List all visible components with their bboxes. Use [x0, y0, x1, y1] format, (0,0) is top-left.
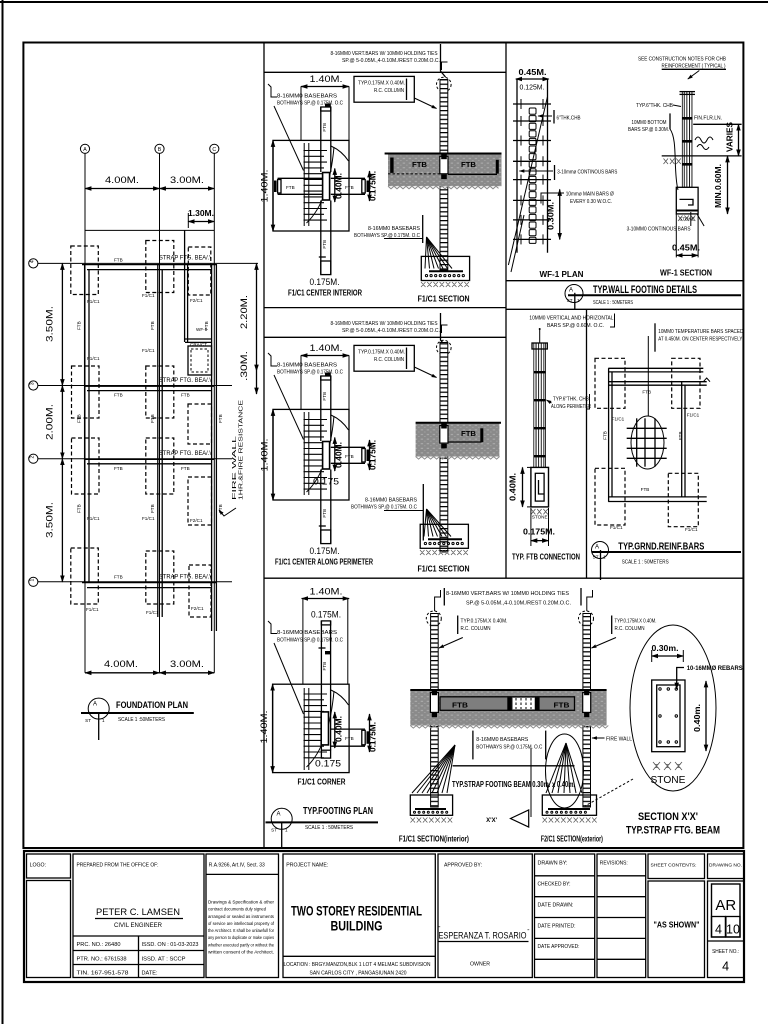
divider horizontal y580 full — [264, 577, 743, 579]
svg-text:10MM0 TEMPERATURE BARS SPACED: 10MM0 TEMPERATURE BARS SPACED — [658, 329, 743, 335]
WF-1 wall horizontal — [185, 338, 212, 340]
svg-text:FTB: FTB — [114, 575, 123, 580]
svg-text:F1/C1: F1/C1 — [146, 610, 159, 615]
svg-text:4.00M.: 4.00M. — [105, 175, 139, 186]
svg-text:FTB: FTB — [218, 414, 223, 423]
svg-text:10mmø MAIN BARS Ø: 10mmø MAIN BARS Ø — [566, 192, 614, 198]
TYP.WALL FOOTING DETAILS title strip — [565, 284, 741, 309]
svg-text:FTB: FTB — [461, 431, 476, 438]
svg-text:A: A — [276, 812, 280, 818]
beam grid3 — [85, 385, 214, 387]
svg-text:STONE: STONE — [679, 217, 695, 222]
svg-text:1: 1 — [285, 828, 288, 833]
svg-text:1.40M.: 1.40M. — [260, 439, 271, 472]
walls: top wall grid4 — [82, 264, 217, 266]
svg-text:FTB: FTB — [286, 185, 295, 190]
svg-text:8-16MM0 BASEBARS: 8-16MM0 BASEBARS — [277, 363, 338, 369]
svg-text:FTB: FTB — [322, 123, 327, 132]
WF-1 wall vertical — [184, 230, 186, 342]
svg-text:A: A — [569, 288, 573, 294]
svg-text:SEE CONSTRUCTION NOTES FOR CHB: SEE CONSTRUCTION NOTES FOR CHB — [638, 57, 726, 63]
svg-text:FIN.FLR.LN.: FIN.FLR.LN. — [694, 116, 722, 122]
page outer border left — [2, 0, 4, 1024]
svg-text:CRA/CT: CRA/CT — [190, 342, 207, 347]
svg-text:F1/C1: F1/C1 — [87, 299, 100, 304]
svg-text:8-16MM0 VERT.BARS W/ 10MM0 HOL: 8-16MM0 VERT.BARS W/ 10MM0 HOLDING TIES — [446, 591, 570, 597]
svg-text:F1/C1: F1/C1 — [142, 516, 155, 521]
divider horizontal y309.3 right col — [506, 308, 743, 310]
svg-text:FTB: FTB — [641, 487, 650, 492]
svg-text:B: B — [158, 147, 162, 153]
svg-text:OWNER: OWNER — [470, 962, 490, 968]
wall C vertical — [211, 264, 213, 631]
svg-text:4: 4 — [722, 960, 729, 974]
svg-text:FTB: FTB — [150, 321, 155, 330]
svg-text:1: 1 — [603, 555, 606, 560]
svg-text:3.50M.: 3.50M. — [45, 306, 56, 342]
svg-text:ST: ST — [271, 828, 277, 833]
grid bubble A — [80, 144, 89, 153]
svg-text:F2/C1: F2/C1 — [190, 298, 203, 303]
svg-text:PREPARED FROM THE OFFICE OF:: PREPARED FROM THE OFFICE OF: — [77, 863, 159, 869]
svg-text:1: 1 — [577, 298, 580, 303]
svg-text:FTB: FTB — [114, 466, 123, 471]
svg-text:F1/C1: F1/C1 — [87, 516, 100, 521]
svg-text:F1/C1: F1/C1 — [612, 417, 625, 422]
svg-text:TYP.WALL FOOTING DETAILS: TYP.WALL FOOTING DETAILS — [593, 284, 697, 296]
svg-text:F1/C1 CENTER INTERIOR: F1/C1 CENTER INTERIOR — [288, 289, 362, 298]
bottom wall grid1 — [82, 582, 217, 584]
svg-text:0.175: 0.175 — [315, 759, 341, 770]
svg-text:F2/C1: F2/C1 — [190, 518, 203, 523]
grid row lines — [38, 262, 258, 264]
svg-text:CHECKED BY:: CHECKED BY: — [538, 882, 571, 888]
svg-text:R.C. COLUMN: R.C. COLUMN — [461, 626, 491, 632]
svg-text:APPROVED BY:: APPROVED BY: — [444, 863, 482, 869]
svg-text:10-16MMØ REBARS: 10-16MMØ REBARS — [687, 666, 743, 672]
svg-text:0.175M.: 0.175M. — [310, 546, 340, 557]
svg-text:F1/C1: F1/C1 — [86, 607, 99, 612]
grid line C vertical — [213, 154, 215, 673]
svg-text:0.45M.: 0.45M. — [672, 244, 700, 253]
svg-text:4: 4 — [29, 260, 35, 263]
svg-text:WF-1 PLAN: WF-1 PLAN — [540, 270, 584, 279]
svg-text:SP.@ 5-0.05M.,4-0.10M./REST 0.: SP.@ 5-0.05M.,4-0.10M./REST 0.20M.O.C. — [342, 328, 440, 334]
divider vertical x264 — [263, 43, 265, 849]
svg-text:SHEET NO.:: SHEET NO.: — [712, 949, 739, 955]
svg-text:A: A — [93, 702, 97, 708]
svg-text:8-16MM0 BASEBARS: 8-16MM0 BASEBARS — [277, 630, 338, 636]
svg-text:WF-1 SECTION: WF-1 SECTION — [660, 269, 712, 278]
svg-text:FTB: FTB — [114, 258, 123, 263]
wall A vertical — [84, 264, 86, 582]
svg-text:8-16MM0 VERT.BARS W/ 10MM0 HOL: 8-16MM0 VERT.BARS W/ 10MM0 HOLDING TIES — [331, 321, 438, 327]
svg-text:STRAP FTG. BEA/.\: STRAP FTG. BEA/.\ — [159, 256, 211, 262]
svg-text:of service are intellectual pr: of service are intellectual property of — [208, 921, 275, 926]
svg-text:F1/C1: F1/C1 — [685, 527, 698, 532]
svg-text:FTB: FTB — [603, 431, 608, 440]
beam B vertical — [157, 264, 159, 617]
svg-text:ISSD. AT : SCCP: ISSD. AT : SCCP — [142, 957, 187, 963]
svg-text:TYP.STRAP FOOTING BEAM 0.30m.: TYP.STRAP FOOTING BEAM 0.30m. x 0.40m. — [452, 780, 575, 789]
svg-text:0.45M.: 0.45M. — [519, 68, 547, 77]
svg-text:DATE DRAWN:: DATE DRAWN: — [538, 903, 574, 909]
svg-text:CIVIL ENGINEER: CIVIL ENGINEER — [114, 923, 163, 929]
svg-text:whether executed partly or wit: whether executed partly or without the — [208, 942, 274, 947]
svg-text:": " — [528, 929, 530, 935]
svg-text:STONE: STONE — [532, 515, 548, 520]
svg-text:F1/C1: F1/C1 — [142, 348, 155, 353]
svg-text:TYP. FTB CONNECTION: TYP. FTB CONNECTION — [512, 553, 580, 562]
svg-text:1.40M.: 1.40M. — [310, 343, 343, 354]
grid bubble C — [210, 144, 219, 153]
divider horizontal y337.3 mid col — [264, 336, 506, 338]
svg-text:LOGO:: LOGO: — [30, 863, 46, 869]
svg-text:Drawings & Specification & oth: Drawings & Specification & other — [208, 900, 275, 905]
dashed footing boxes grid C — [188, 247, 211, 295]
svg-text:BOTHWAYS SP.@ 0.175M. O.C: BOTHWAYS SP.@ 0.175M. O.C — [351, 505, 417, 511]
svg-text:FTB: FTB — [412, 162, 427, 169]
svg-text:FTB: FTB — [322, 509, 327, 518]
svg-text:3.50M.: 3.50M. — [45, 502, 56, 538]
svg-text:PROJECT NAME:: PROJECT NAME: — [286, 863, 328, 869]
divider vertical x586.5 — [586, 309, 588, 578]
svg-text:TYP.STRAP FTG. BEAM: TYP.STRAP FTG. BEAM — [626, 825, 720, 837]
svg-text:3.00M.: 3.00M. — [170, 175, 204, 186]
svg-text:SP.@ 5-0.05M.,4-0.10M./REST 0.: SP.@ 5-0.05M.,4-0.10M./REST 0.20M.O.C. — [342, 58, 440, 64]
svg-text:R.C. COLUMN: R.C. COLUMN — [374, 357, 404, 363]
svg-text:PRC. NO.: 26480: PRC. NO.: 26480 — [77, 942, 121, 948]
svg-text:SCALE 1 : 50METERS: SCALE 1 : 50METERS — [593, 300, 633, 306]
svg-text:any person to duplicate or: any person to duplicate or make copies — [208, 935, 275, 940]
svg-text:FOUNDATION PLAN: FOUNDATION PLAN — [116, 700, 188, 711]
svg-text:DRAWN BY:: DRAWN BY: — [538, 861, 568, 867]
svg-text:.30M.: .30M. — [239, 351, 250, 381]
svg-text:FTB: FTB — [554, 703, 570, 710]
svg-text:FTB: FTB — [461, 162, 476, 169]
FOUNDATION PLAN title marker — [88, 698, 109, 719]
svg-text:X'X': X'X' — [486, 818, 497, 824]
svg-text:F1/C1 SECTION: F1/C1 SECTION — [418, 295, 470, 304]
svg-text:FTB: FTB — [345, 185, 354, 190]
svg-text:3: 3 — [29, 382, 35, 385]
svg-text:F2/C1: F2/C1 — [191, 606, 204, 611]
svg-text:"AS SHOWN": "AS SHOWN" — [654, 920, 700, 930]
svg-text:TWO STOREY RESIDENTIAL: TWO STOREY RESIDENTIAL — [291, 904, 422, 919]
svg-text:ST: ST — [593, 555, 599, 560]
row bubble 3 — [29, 381, 38, 390]
svg-text:ALONG PERIMETER: ALONG PERIMETER — [551, 404, 591, 410]
svg-text:VARIES: VARIES — [726, 121, 735, 152]
svg-text:8-16MM0 BASEBARS: 8-16MM0 BASEBARS — [365, 498, 418, 504]
svg-text:FTB: FTB — [181, 466, 190, 471]
svg-text:SECTION X'X': SECTION X'X' — [638, 811, 698, 823]
svg-text:DATE:: DATE: — [142, 971, 158, 977]
svg-text:FTB: FTB — [678, 431, 683, 440]
svg-text:SAN CARLOS CITY , PANGASIUNAN: SAN CARLOS CITY , PANGASIUNAN 2420 — [310, 971, 407, 977]
svg-text:3-10mmø CONTINOUS BARS: 3-10mmø CONTINOUS BARS — [557, 170, 617, 176]
svg-text:FTB: FTB — [452, 703, 468, 710]
svg-text:1.40M.: 1.40M. — [259, 711, 270, 744]
svg-text:6"THK.CHB: 6"THK.CHB — [557, 116, 581, 122]
dashed footing boxes grid A — [71, 246, 99, 295]
svg-text:TYP.GRND.REINF.BARS: TYP.GRND.REINF.BARS — [618, 541, 704, 553]
divider horizontal y307.6 mid col — [264, 307, 506, 309]
dashed footing boxes grid B — [146, 241, 174, 293]
divider horizontal y72 mid col — [264, 71, 506, 73]
svg-text:contract documents duly signed: contract documents duly signed — [208, 907, 267, 912]
svg-text:FTB: FTB — [322, 240, 327, 249]
grid line A vertical — [84, 154, 86, 673]
svg-text:DATE APPROVED:: DATE APPROVED: — [538, 944, 580, 950]
svg-text:FTB: FTB — [150, 414, 155, 423]
svg-text:1.40M.: 1.40M. — [310, 74, 343, 85]
svg-text:3.00M.: 3.00M. — [170, 659, 204, 670]
svg-text:0.30M.: 0.30M. — [547, 202, 556, 230]
svg-text:F1/C1 SECTION: F1/C1 SECTION — [418, 565, 470, 574]
svg-text:2.00M.: 2.00M. — [45, 404, 56, 440]
svg-text:arranged or sealed as i: arranged or sealed as instruments — [208, 914, 275, 919]
svg-text:PTR. NO.: 6761538: PTR. NO.: 6761538 — [77, 957, 127, 963]
svg-text:A: A — [595, 545, 599, 551]
svg-text:0.175M.: 0.175M. — [523, 528, 555, 537]
svg-text:2.20M.: 2.20M. — [239, 295, 250, 329]
svg-text:TIN. 167-951-578: TIN. 167-951-578 — [77, 971, 129, 977]
svg-text:FTB: FTB — [345, 454, 354, 459]
svg-text:BOTHWAYS SP.@ 0.175M. O.C: BOTHWAYS SP.@ 0.175M. O.C — [277, 638, 343, 644]
svg-text:FTB: FTB — [322, 392, 327, 401]
svg-text:ESPERANZA T. ROSARIO: ESPERANZA T. ROSARIO — [439, 931, 527, 941]
svg-text:C: C — [212, 147, 216, 153]
svg-text:REINFORCEMENT ( TYPICAL ): REINFORCEMENT ( TYPICAL ) — [662, 64, 726, 70]
svg-text:BUILDING: BUILDING — [331, 919, 383, 934]
svg-text:1: 1 — [102, 718, 105, 723]
svg-text:F1/C1: F1/C1 — [687, 413, 700, 418]
svg-text:10MM0 BOTTOM: 10MM0 BOTTOM — [632, 120, 667, 126]
svg-text:FTB: FTB — [77, 504, 82, 513]
svg-text:TYP.FOOTING PLAN: TYP.FOOTING PLAN — [303, 805, 373, 817]
svg-text:FTB: FTB — [150, 504, 155, 513]
svg-text:FIRE WALL: FIRE WALL — [232, 436, 238, 500]
svg-text:STRAP FTG. BEA/.\: STRAP FTG. BEA/.\ — [159, 575, 211, 581]
svg-text:FTB: FTB — [642, 390, 651, 395]
svg-text:F1/C1 SECTION(interior): F1/C1 SECTION(interior) — [399, 835, 469, 844]
svg-text:0.40M.: 0.40M. — [335, 173, 344, 199]
svg-text:DATE PRINTED:: DATE PRINTED: — [538, 923, 576, 929]
svg-text:EVERY 0.30 W.O.C.: EVERY 0.30 W.O.C. — [570, 199, 612, 205]
svg-text:SCALE 1 : 50METERS: SCALE 1 : 50METERS — [622, 560, 669, 566]
svg-text:8-16MM0 VERT.BARS W/ 10MM0 HOL: 8-16MM0 VERT.BARS W/ 10MM0 HOLDING TIES — [331, 51, 438, 57]
svg-text:2: 2 — [29, 455, 35, 458]
grid bubble B — [155, 144, 164, 153]
svg-text:1.40M.: 1.40M. — [260, 170, 271, 203]
svg-text:0.40m.: 0.40m. — [693, 704, 702, 732]
svg-text:0.175M.: 0.175M. — [310, 277, 340, 288]
svg-text:F2/C1 SECTION(exterior): F2/C1 SECTION(exterior) — [541, 835, 603, 844]
svg-text:SHEET CONTENTS:: SHEET CONTENTS: — [651, 863, 697, 869]
page outer border top — [0, 1, 768, 3]
svg-text:TYP.0.175M.X 0.40M.: TYP.0.175M.X 0.40M. — [461, 619, 508, 625]
svg-text:PETER C. LAMSEN: PETER C. LAMSEN — [96, 907, 180, 918]
svg-text:TYP.6"THK. CHB: TYP.6"THK. CHB — [636, 103, 674, 109]
svg-text:FTB: FTB — [114, 393, 123, 398]
svg-text:DRAWING NO.: DRAWING NO. — [709, 863, 742, 868]
svg-text:REVISIONS:: REVISIONS: — [600, 861, 628, 867]
svg-text:4: 4 — [715, 923, 722, 937]
svg-text:F1/C1: F1/C1 — [87, 356, 100, 361]
small box below WF-1 — [188, 346, 212, 375]
svg-text:0.175M.: 0.175M. — [311, 610, 341, 621]
svg-text:TYP.0.175M.X 0.40M.: TYP.0.175M.X 0.40M. — [358, 81, 405, 87]
svg-text:AT 0.450M. ON CENTER RESPECTIV: AT 0.450M. ON CENTER RESPECTIVELY — [658, 337, 742, 343]
svg-text:AR: AR — [715, 897, 736, 914]
svg-text:0.175M.: 0.175M. — [369, 171, 378, 201]
svg-text:0.40M.: 0.40M. — [335, 442, 344, 468]
svg-text:written consent of the Arch: written consent of the Architect. — [208, 950, 274, 955]
svg-text:8-16MM0 BASEBARS: 8-16MM0 BASEBARS — [368, 226, 421, 232]
right dim chain 2.20M / 0.30M — [256, 263, 258, 371]
svg-text:STONE: STONE — [651, 775, 686, 786]
svg-text:8-16MM0 BASEBARS: 8-16MM0 BASEBARS — [277, 94, 338, 100]
row bubble 1 — [29, 577, 38, 586]
svg-text:0.125M.: 0.125M. — [520, 85, 545, 92]
svg-text:MIN.0.60M.: MIN.0.60M. — [714, 164, 723, 208]
svg-text:STRAP FTG. BEA/.\: STRAP FTG. BEA/.\ — [159, 378, 211, 384]
svg-text:R.C. COLUMN: R.C. COLUMN — [374, 88, 404, 94]
svg-text:BOTHWAYS SP.@ 0.175M. O.C: BOTHWAYS SP.@ 0.175M. O.C — [277, 101, 343, 107]
svg-text:STRAP FTG. BEA/.\: STRAP FTG. BEA/.\ — [159, 451, 211, 457]
svg-text:BOTHWAYS SP.@ 0.175M. O.C: BOTHWAYS SP.@ 0.175M. O.C — [476, 745, 542, 751]
svg-text:LOCATION : BRGY.MANZON,BLK 1 L: LOCATION : BRGY.MANZON,BLK 1 LOT 4 MELMA… — [284, 962, 431, 968]
svg-text:0.175M.: 0.175M. — [369, 722, 378, 752]
svg-text:F1/C1 CENTER ALONG PERIMETER: F1/C1 CENTER ALONG PERIMETER — [275, 558, 373, 567]
divider horizontal y280.7 right col — [506, 280, 743, 282]
svg-text:R.A.9266, Art.IV, Sect. 33: R.A.9266, Art.IV, Sect. 33 — [209, 863, 265, 869]
svg-text:TYP.0.175M.X 0.40M.: TYP.0.175M.X 0.40M. — [358, 350, 405, 356]
terrace line — [85, 229, 215, 231]
svg-text:FIRE WALL: FIRE WALL — [606, 737, 632, 743]
beam grid2 — [85, 458, 214, 460]
svg-text:TYP.6"THK. CHB: TYP.6"THK. CHB — [553, 397, 589, 403]
svg-text:BOTHWAYS SP.@ 0.175M. O.C: BOTHWAYS SP.@ 0.175M. O.C — [277, 370, 343, 376]
svg-text:0.175: 0.175 — [313, 477, 339, 488]
svg-text:SP.@ 5-0.05M.,4-0.10M./REST 0.: SP.@ 5-0.05M.,4-0.10M./REST 0.20M.O.C. — [466, 601, 571, 607]
left dim chain — [61, 263, 63, 385]
svg-text:10MM0 VERTICAL AND HORIZONTAL: 10MM0 VERTICAL AND HORIZONTAL — [529, 316, 613, 322]
svg-text:10: 10 — [726, 923, 740, 937]
svg-text:0.40M.: 0.40M. — [509, 473, 518, 501]
divider vertical x506 — [505, 43, 507, 579]
svg-text:FTB: FTB — [204, 321, 209, 330]
svg-text:FTB: FTB — [345, 736, 354, 741]
svg-text:0.175M.: 0.175M. — [369, 440, 378, 470]
svg-text:ST: ST — [567, 298, 573, 303]
svg-text:8-16MM0 BASEBARS: 8-16MM0 BASEBARS — [476, 737, 529, 743]
svg-text:F1/C1: F1/C1 — [610, 525, 623, 530]
svg-text:0.30m.: 0.30m. — [652, 644, 679, 653]
svg-text:R.C. COLUMN: R.C. COLUMN — [615, 626, 645, 632]
svg-text:the Architect. It shall be: the Architect. It shall be unlawfull for — [208, 928, 275, 933]
svg-text:TYP.0.175M.X 0.40M.: TYP.0.175M.X 0.40M. — [615, 619, 657, 625]
svg-text:1HR.&FIRE RESISTANCE: 1HR.&FIRE RESISTANCE — [239, 399, 245, 500]
svg-text:SCALE 1 : 50METERS: SCALE 1 : 50METERS — [305, 825, 353, 831]
svg-text:FTB: FTB — [322, 662, 327, 671]
svg-text:4.00M.: 4.00M. — [104, 659, 138, 670]
svg-text:FTB: FTB — [77, 414, 82, 423]
svg-text:1: 1 — [29, 579, 35, 582]
svg-text:3-10MM0 CONTINOUS BARS: 3-10MM0 CONTINOUS BARS — [627, 227, 691, 233]
svg-text:SCALE 1 :50METERS: SCALE 1 :50METERS — [118, 717, 165, 723]
svg-text:FTB: FTB — [77, 321, 82, 330]
svg-text:F1/C1: F1/C1 — [142, 293, 155, 298]
svg-text:A: A — [83, 147, 87, 153]
svg-text:ISSD. ON : 01-03-2023: ISSD. ON : 01-03-2023 — [142, 942, 199, 948]
svg-text:BARS SP.@ 0.30M.: BARS SP.@ 0.30M. — [628, 127, 669, 133]
svg-text:1.40M.: 1.40M. — [310, 587, 343, 598]
row bubble 2 — [29, 454, 38, 463]
svg-text:0.40M.: 0.40M. — [335, 716, 344, 742]
row bubble 4 — [29, 259, 38, 268]
main drawing frame — [23, 43, 743, 849]
svg-text:BARS SP.@ 0.60M. O.C.: BARS SP.@ 0.60M. O.C. — [547, 323, 604, 329]
svg-text:F1/C1 CORNER: F1/C1 CORNER — [298, 778, 346, 787]
svg-text:FTB: FTB — [181, 393, 190, 398]
grid line B vertical — [159, 154, 161, 673]
svg-text:1.30M.: 1.30M. — [188, 209, 214, 218]
svg-text:ST: ST — [85, 718, 91, 723]
